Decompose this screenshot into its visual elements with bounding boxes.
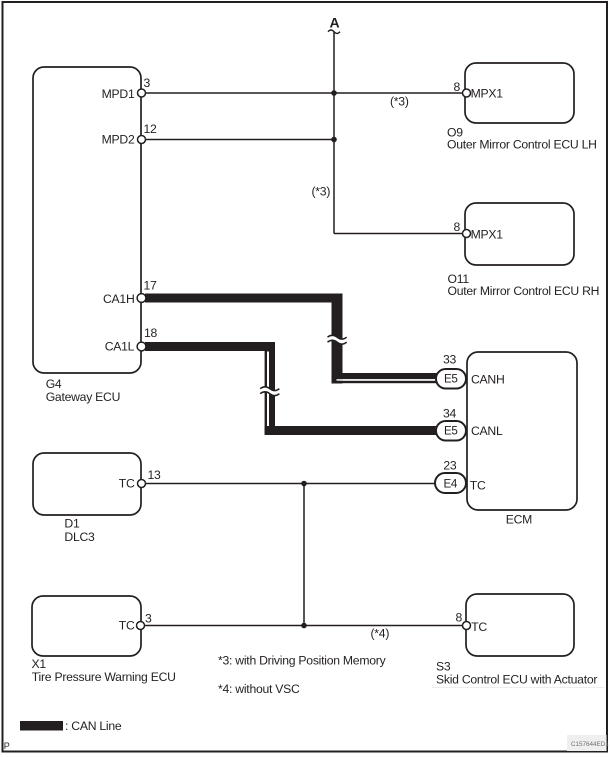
svg-text:CANH: CANH xyxy=(471,372,505,386)
svg-text:MPX1: MPX1 xyxy=(471,87,504,101)
svg-text:TC: TC xyxy=(471,620,487,634)
svg-text:*4: without VSC: *4: without VSC xyxy=(218,682,300,696)
svg-text:ECM: ECM xyxy=(506,512,532,526)
svg-text:Outer Mirror Control ECU LH: Outer Mirror Control ECU LH xyxy=(447,138,597,152)
svg-text:34: 34 xyxy=(443,407,457,421)
svg-text:X1: X1 xyxy=(32,657,47,671)
svg-text:MPX1: MPX1 xyxy=(471,228,504,242)
svg-text:13: 13 xyxy=(148,468,162,482)
svg-text:G4: G4 xyxy=(46,377,62,391)
svg-text:(*3): (*3) xyxy=(390,95,409,109)
svg-text:Tire Pressure Warning ECU: Tire Pressure Warning ECU xyxy=(32,670,176,684)
svg-text:8: 8 xyxy=(453,220,460,234)
svg-text:Outer Mirror Control ECU RH: Outer Mirror Control ECU RH xyxy=(448,284,600,298)
svg-text:TC: TC xyxy=(119,619,135,633)
svg-text:18: 18 xyxy=(144,326,158,340)
svg-text:12: 12 xyxy=(144,122,158,136)
svg-text:(*4): (*4) xyxy=(371,627,390,641)
svg-text:Skid Control ECU with Actuator: Skid Control ECU with Actuator xyxy=(436,672,597,686)
svg-text:Gateway ECU: Gateway ECU xyxy=(46,390,120,404)
svg-text:DLC3: DLC3 xyxy=(64,530,95,544)
svg-text:E4: E4 xyxy=(443,477,457,490)
svg-text:CANL: CANL xyxy=(471,424,503,438)
svg-text:MPD2: MPD2 xyxy=(102,132,135,146)
svg-text:E5: E5 xyxy=(444,425,458,438)
svg-text:(*3): (*3) xyxy=(312,185,331,199)
svg-text:*3: with Driving Position Memo: *3: with Driving Position Memory xyxy=(218,654,387,668)
svg-text:P: P xyxy=(4,741,10,751)
svg-text:CA1L: CA1L xyxy=(105,340,135,354)
svg-text:17: 17 xyxy=(144,279,158,293)
svg-text:: CAN Line: : CAN Line xyxy=(65,719,122,733)
svg-text:3: 3 xyxy=(144,76,151,90)
svg-text:3: 3 xyxy=(145,612,152,626)
svg-text:MPD1: MPD1 xyxy=(102,87,135,101)
svg-text:33: 33 xyxy=(443,353,457,367)
svg-text:S3: S3 xyxy=(436,659,451,673)
svg-text:D1: D1 xyxy=(64,516,80,530)
svg-text:TC: TC xyxy=(119,477,135,491)
svg-text:A: A xyxy=(330,15,340,31)
svg-text:TC: TC xyxy=(470,479,486,493)
svg-text:8: 8 xyxy=(453,80,460,94)
svg-text:8: 8 xyxy=(455,611,462,625)
svg-text:E5: E5 xyxy=(444,373,458,386)
svg-text:CA1H: CA1H xyxy=(103,292,135,306)
svg-text:23: 23 xyxy=(443,459,457,473)
svg-text:C157644ED1: C157644ED1 xyxy=(571,741,609,748)
